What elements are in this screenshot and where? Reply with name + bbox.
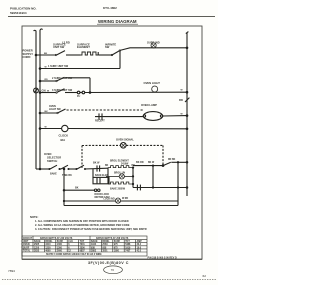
svg-text:1950: 1950	[114, 250, 120, 252]
junction node (64,190.2)	[63, 189, 66, 192]
wire lock loop bottom	[64, 205, 178, 207]
junction node (85,169)	[84, 168, 86, 170]
junction node (187,187.5)	[186, 186, 189, 189]
svg-text:7407: 7407	[125, 249, 131, 252]
junction node (178,187.5)	[177, 186, 179, 188]
svg-text:2563: 2563	[102, 244, 108, 246]
svg-text:SURF: SURF	[57, 241, 64, 243]
svg-text:UNIT SW: UNIT SW	[53, 45, 65, 49]
svg-text:7301: 7301	[80, 244, 86, 246]
svg-text:2882: 2882	[91, 250, 97, 252]
wire selector row from buses	[36, 168, 50, 170]
svg-text:SURF: SURF	[23, 247, 30, 249]
svg-text:2585: 2585	[34, 244, 40, 246]
svg-text:76: 76	[111, 268, 115, 272]
svg-text:30.4: 30.4	[137, 243, 142, 246]
wire selector row	[59, 168, 62, 170]
svg-text:CIRCUIT: CIRCUIT	[23, 238, 33, 240]
svg-text:1 SURF UNIT SW: 1 SURF UNIT SW	[48, 65, 69, 68]
wire row1 L1 to surface switch	[36, 54, 56, 56]
svg-text:RATED WATTS AT 240 VOLTS: RATED WATTS AT 240 VOLTS	[40, 237, 73, 240]
junction node (133,176.4)	[132, 175, 134, 177]
svg-text:UNIT: UNIT	[23, 241, 29, 243]
svg-text:10.6: 10.6	[137, 247, 142, 249]
surface indicator lamp	[151, 43, 156, 48]
svg-text:BK W: BK W	[148, 162, 155, 164]
bake terminal circles	[94, 189, 96, 191]
svg-text:9857: 9857	[80, 250, 86, 252]
svg-text:3. CAUTION : DISCONNECT POWER: 3. CAUTION : DISCONNECT POWER AT MAIN FU…	[35, 227, 147, 231]
surface element (square-wave heater symbol)	[80, 52, 98, 55]
svg-text:RATED WATTS AT 208 VOLTS: RATED WATTS AT 208 VOLTS	[96, 237, 129, 240]
svg-text:SUPPLY CORD RATED 120/240 VOLT: SUPPLY CORD RATED 120/240 VOLT 60 HZ 3 W…	[46, 253, 102, 256]
junction node (133,184)	[132, 183, 134, 185]
connector bars selector	[96, 165, 98, 171]
junction node (90,92.5)	[89, 91, 92, 94]
bus L2 RED (right vertical wire)	[186, 33, 188, 196]
switch blade infinite sw	[112, 51, 120, 55]
switch blade row3	[57, 77, 65, 81]
svg-text:1250: 1250	[45, 247, 51, 249]
svg-text:3501: 3501	[102, 250, 108, 252]
switch blade thermostat	[163, 162, 171, 165]
junction node (64,169)	[63, 168, 66, 171]
svg-text:CLOCK: CLOCK	[59, 133, 69, 137]
junction node (36,55)	[35, 54, 38, 57]
power supply bus L1 (left vertical wire)	[35, 33, 37, 169]
svg-text:BAKE: BAKE	[91, 240, 98, 243]
svg-text:WIRING DIAGRAM: WIRING DIAGRAM	[98, 19, 137, 24]
svg-text:LIGHT SW: LIGHT SW	[49, 108, 61, 111]
junction node (187,115.6)	[186, 114, 189, 117]
footer stamp oval	[104, 266, 123, 274]
wire lock motor line	[64, 200, 178, 202]
junction node (59,169)	[59, 168, 61, 170]
wire row4 mid	[65, 92, 77, 94]
ratings table	[22, 236, 147, 256]
svg-text:SELECTOR: SELECTOR	[47, 155, 61, 159]
junction node (152.6,165.6)	[152, 164, 154, 166]
svg-text:BROIL: BROIL	[102, 241, 110, 243]
svg-text:BK: BK	[75, 186, 79, 189]
svg-text:ELEMENT: ELEMENT	[77, 45, 90, 49]
title underline	[97, 23, 138, 25]
svg-text:3410W: 3410W	[121, 162, 129, 165]
wire lamp return with plug	[95, 116, 143, 118]
svg-text:1944: 1944	[91, 243, 97, 246]
svg-text:CORD: CORD	[23, 55, 31, 59]
door lock indicator lamp	[115, 198, 120, 203]
junction node (40,128.5)	[39, 127, 42, 130]
wire lock loop left	[63, 169, 65, 206]
wire drop x90	[89, 78, 91, 93]
junction node (187,128.8)	[186, 128, 189, 131]
svg-text:1300: 1300	[57, 247, 63, 249]
junction node (49,169)	[48, 168, 50, 170]
svg-text:62: 62	[203, 274, 207, 278]
wire drop x178	[177, 162, 179, 205]
svg-text:41.0: 41.0	[137, 249, 142, 252]
wire selector row to block	[85, 167, 109, 170]
junction node (187,50.4)	[186, 47, 189, 50]
svg-text:BK: BK	[45, 111, 49, 113]
dashed wire drop right	[162, 146, 164, 165]
header rule	[8, 16, 215, 18]
svg-text:BAKE 2585W: BAKE 2585W	[110, 187, 126, 190]
schematic border bottom emphasis	[22, 258, 202, 260]
svg-text:TOTAL: TOTAL	[23, 249, 31, 252]
svg-text:TIME BK: TIME BK	[62, 174, 72, 177]
svg-text:3410: 3410	[45, 243, 51, 246]
junction node (187,92.2)	[186, 91, 189, 94]
notes text block	[30, 215, 147, 231]
wire clock to L2	[68, 128, 187, 130]
svg-text:RD: RD	[45, 79, 49, 81]
svg-text:3835: 3835	[34, 250, 40, 252]
junction node (153,187.5)	[152, 186, 154, 188]
svg-text:BAKE: BAKE	[50, 173, 57, 176]
svg-text:2600: 2600	[57, 250, 63, 252]
switch pivot terminal (120,51)	[119, 50, 121, 52]
svg-text:TOT: TOT	[80, 241, 85, 243]
svg-text:RD BK: RD BK	[168, 159, 176, 161]
wire row6 N bus to clock	[40, 128, 62, 130]
svg-text:BK: BK	[105, 165, 109, 167]
wire infinite sw drop	[119, 50, 121, 68]
block tie wire right	[132, 168, 134, 188]
svg-text:BK RD: BK RD	[136, 161, 144, 164]
switch blade selector 3	[77, 165, 84, 169]
schematic border frame	[22, 26, 202, 259]
svg-text:BK W: BK W	[93, 162, 100, 165]
wire row5 N bus to oven light switch	[40, 112, 57, 114]
switch blade selector 2	[61, 165, 68, 169]
svg-text:GN: GN	[42, 89, 46, 93]
svg-text:BROIL: BROIL	[45, 241, 53, 243]
svg-text:FU: FU	[77, 95, 80, 98]
svg-text:OVEN SIGNAL: OVEN SIGNAL	[116, 138, 134, 142]
bake terminal block rect	[93, 177, 109, 183]
svg-text:BK: BK	[44, 53, 48, 55]
oven light indicator lamp	[152, 86, 158, 92]
svg-text:1300: 1300	[57, 244, 63, 246]
switch pivot terminal (56,55)	[55, 54, 57, 56]
svg-text:LOCK IND: LOCK IND	[104, 199, 115, 201]
junction node (178,162.2)	[177, 161, 179, 163]
switch pivot terminal (57.5,113)	[57, 112, 59, 114]
junction node (40,169)	[39, 168, 42, 171]
svg-text:1250: 1250	[34, 247, 40, 249]
dashed wire drop left	[81, 146, 83, 170]
svg-text:2. ALL WIRING 18 GA UNLESS OTH: 2. ALL WIRING 18 GA UNLESS OTHERWISE NOT…	[35, 223, 130, 227]
svg-text:4660: 4660	[45, 249, 51, 252]
switch pivot terminal (112,55)	[111, 54, 113, 56]
oven signal lamp	[121, 143, 127, 149]
svg-text:BAKE: BAKE	[34, 240, 41, 243]
clock motor	[62, 125, 68, 131]
N terminal hook	[40, 29, 43, 30]
wire block stub up	[92, 169, 94, 177]
svg-text:2 SURF UNIT SW: 2 SURF UNIT SW	[52, 77, 73, 80]
svg-text:BAKE ELEM: BAKE ELEM	[95, 174, 109, 177]
connector slash on L2 bus	[185, 98, 189, 102]
svg-text:NOTE:: NOTE:	[30, 215, 38, 219]
junction node (40,81)	[39, 80, 42, 83]
oven lamp (oval)	[143, 112, 162, 121]
svg-text:1. ALL COMPONENTS ARE SHOWN IN: 1. ALL COMPONENTS ARE SHOWN IN OFF POSIT…	[35, 219, 129, 223]
svg-text:SW: SW	[105, 45, 110, 49]
junction node (40,113)	[39, 112, 42, 115]
svg-text:CLK: CLK	[68, 241, 73, 243]
junction node (76.4,169)	[75, 168, 77, 170]
wire row1 mid	[66, 54, 80, 56]
wire drop x153	[152, 166, 154, 188]
svg-text:SURF IND: SURF IND	[147, 41, 160, 45]
plug connector bars	[98, 113, 100, 119]
svg-text:OVEN LAMP: OVEN LAMP	[141, 103, 157, 107]
switch pivot terminal (56.5,81)	[56, 80, 58, 82]
svg-text:2556: 2556	[80, 247, 86, 249]
wire thermostat row	[133, 165, 163, 167]
wire row3 N bus to oven switch	[40, 80, 56, 82]
broil element (square-wave)	[108, 166, 133, 168]
wire bake feed	[64, 189, 94, 191]
svg-text:BROIL ELEMENT: BROIL ELEMENT	[110, 161, 129, 163]
dashed wire oven signal top	[82, 144, 120, 146]
svg-text:OVEN LIGHT: OVEN LIGHT	[144, 81, 161, 85]
svg-text:OVEN: OVEN	[44, 152, 51, 156]
svg-text:SURF: SURF	[114, 241, 121, 243]
wire bottom row to L2	[133, 187, 187, 189]
switch blade selector 1	[50, 165, 57, 169]
junction node (40,92.5)	[39, 91, 42, 94]
switch blade row4	[57, 89, 65, 93]
svg-text:OVEN: OVEN	[23, 244, 30, 246]
svg-text:KTU-4802: KTU-4802	[103, 6, 117, 10]
switch pivot terminal (56.5,92.5)	[56, 92, 58, 94]
junction node (68.5,169)	[67, 168, 69, 170]
junction node (64,201)	[63, 200, 65, 202]
svg-text:3F(V)00-E(B)80V C: 3F(V)00-E(B)80V C	[88, 261, 129, 265]
oven indicator lamp	[119, 174, 124, 179]
wire selector row	[69, 168, 78, 170]
wire row3 to drop	[65, 77, 90, 79]
power supply bus N (second left vertical wire)	[39, 30, 41, 169]
svg-text:AMP: AMP	[137, 240, 143, 243]
svg-text:W RD: W RD	[122, 198, 128, 200]
junction node (133,167.6)	[132, 166, 134, 168]
L1 terminal hook	[34, 30, 36, 33]
connector bars bottom row	[136, 185, 138, 191]
wire oven lamp to L2	[163, 115, 187, 117]
svg-text:7894: 7894	[8, 269, 15, 273]
svg-text:TOT: TOT	[125, 241, 130, 243]
wire thermostat to L2	[171, 161, 187, 163]
footer dashed rule	[2, 278, 216, 280]
svg-text:3 SURF UNIT SW: 3 SURF UNIT SW	[52, 89, 73, 92]
junction node (163,164.8)	[162, 164, 165, 167]
header publication number text	[10, 7, 37, 15]
bake element (square-wave)	[108, 182, 133, 184]
switch blade oven light sw	[58, 109, 66, 113]
svg-text:42A: 42A	[60, 138, 65, 142]
dashed wire to oven lamp	[67, 109, 144, 111]
fuse TOD (two terminals)	[77, 91, 80, 94]
svg-text:5488: 5488	[125, 243, 131, 246]
svg-text:5995311904: 5995311904	[10, 11, 27, 15]
svg-text:RD: RD	[132, 165, 136, 167]
junction node (40,68.5)	[39, 67, 42, 70]
svg-text:SWITCH: SWITCH	[47, 159, 57, 163]
ground symbol on L1 bus	[34, 88, 39, 93]
svg-text:BROIL UN: BROIL UN	[114, 173, 125, 175]
svg-text:RECEPT: RECEPT	[95, 120, 105, 123]
wire row1 right	[97, 52, 99, 55]
junction node (187,162.2)	[186, 161, 189, 164]
svg-text:1919: 1919	[125, 247, 131, 249]
wire row4 from N bus	[40, 92, 56, 94]
wire row2 N bus to infinite switch return	[40, 68, 120, 70]
switch blade surface unit sw	[57, 51, 66, 55]
wire through oven indicator	[106, 175, 119, 177]
wire to surface indicator	[120, 48, 187, 51]
svg-text:RD: RD	[179, 98, 183, 102]
block tie wire left	[107, 168, 109, 184]
wire row4 to junction	[85, 91, 187, 93]
L2 terminal tick	[186, 32, 189, 34]
